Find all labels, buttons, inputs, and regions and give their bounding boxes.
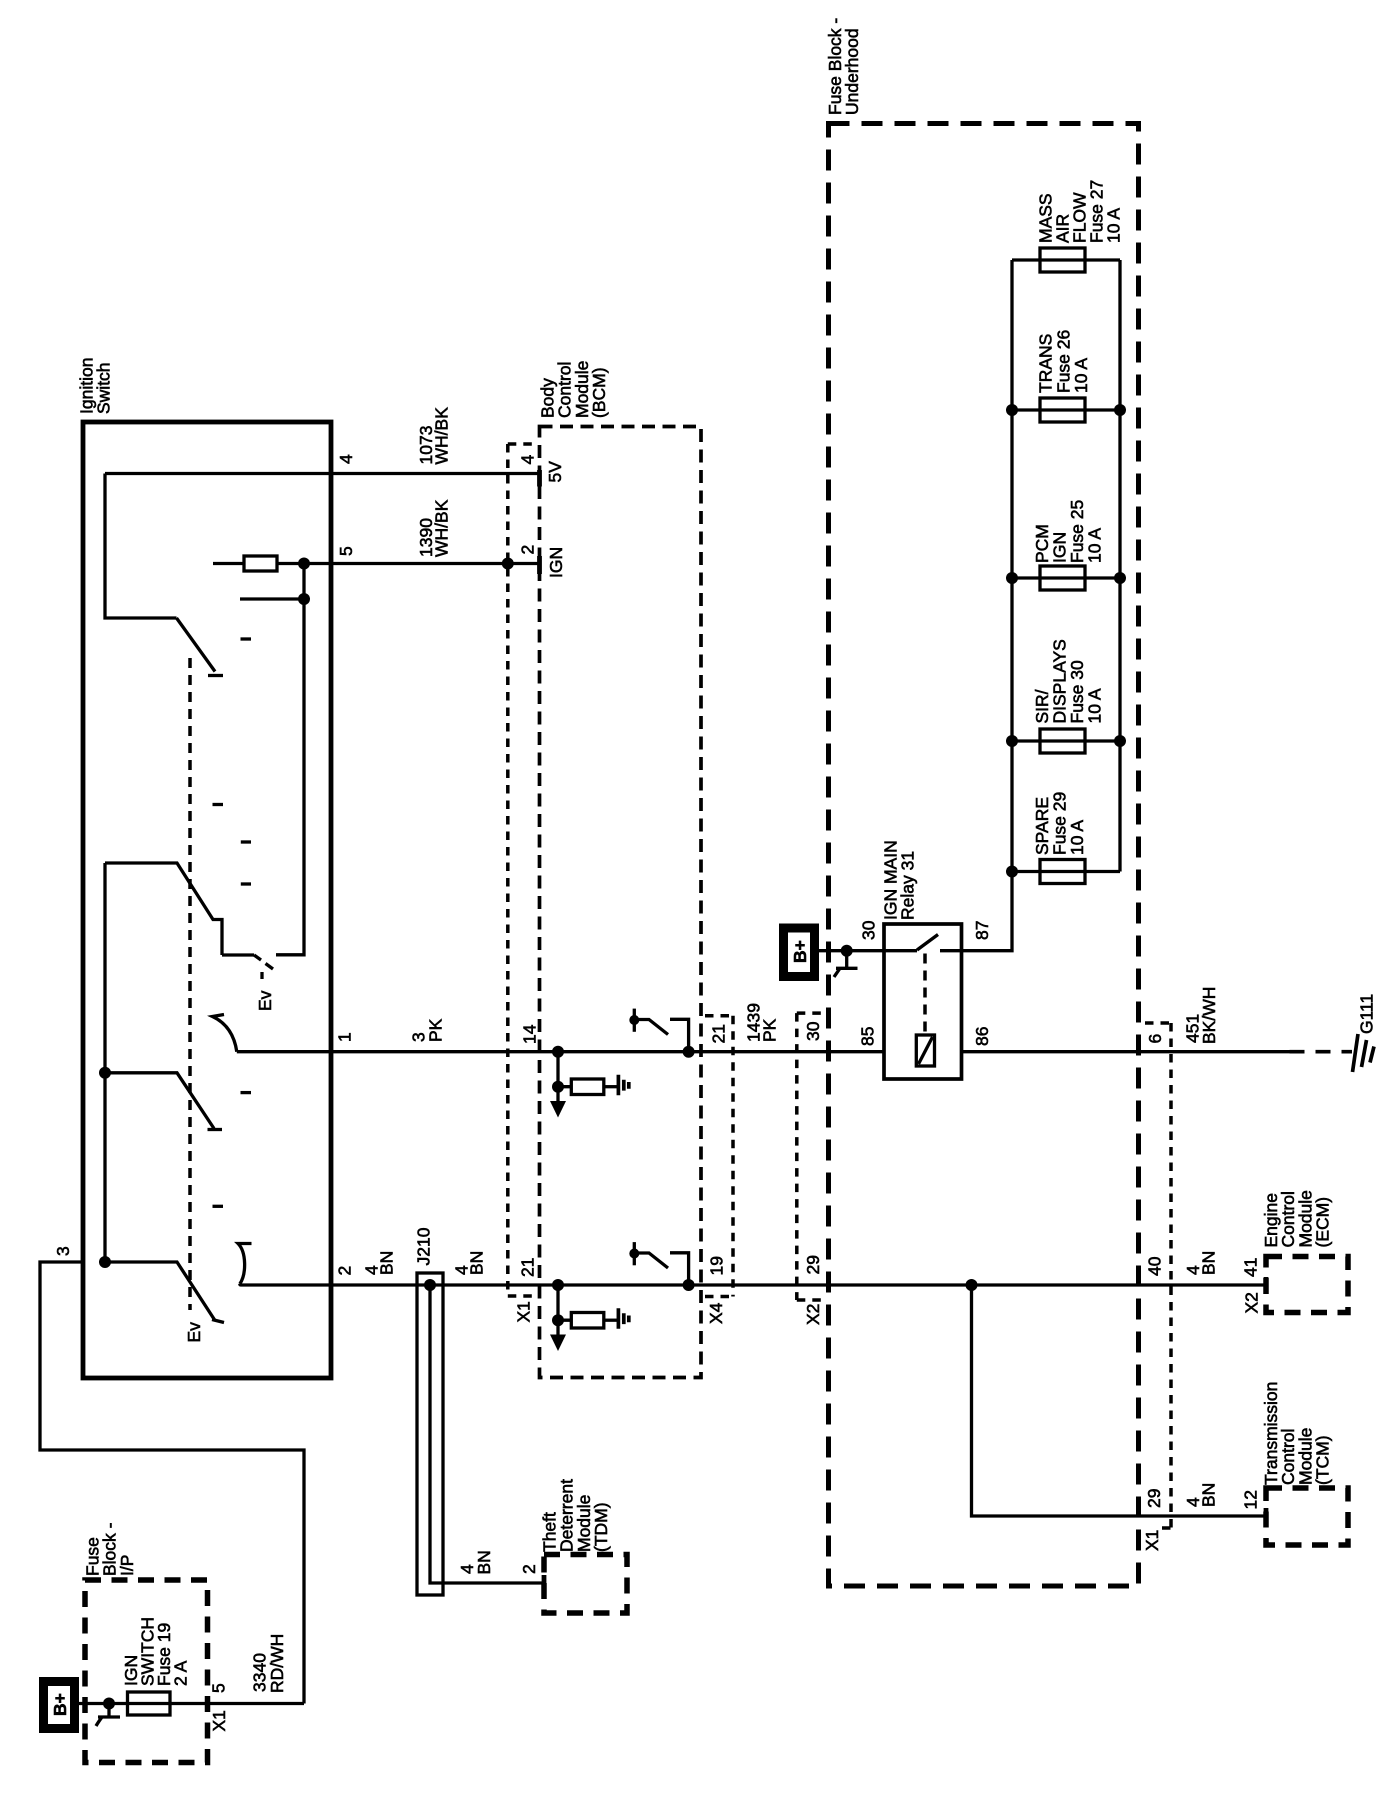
fuse SIR DISPLAYS Fuse 30 (1040, 729, 1085, 753)
ECM box (1266, 1257, 1348, 1313)
B+ IP stub symbol (96, 1704, 120, 1727)
svg-text:X4: X4 (706, 1302, 726, 1324)
fuse rung mass (1012, 258, 1120, 261)
fuse rung sir (1012, 739, 1120, 742)
node PK in BCM (552, 1046, 564, 1058)
svg-text:IGN MAINRelay 31: IGN MAINRelay 31 (881, 840, 918, 920)
svg-text:BN: BN (377, 1251, 397, 1275)
relay IGN MAIN Relay 31 box (884, 924, 962, 1079)
switch arm chain D (105, 1262, 215, 1321)
svg-text:4: 4 (518, 455, 538, 465)
svg-text:BN: BN (1199, 1251, 1219, 1275)
svg-text:G111: G111 (1357, 994, 1377, 1034)
svg-text:IgnitionSwitch: IgnitionSwitch (77, 358, 114, 414)
fuse rail right (1118, 260, 1121, 872)
switch blade D tip (212, 1320, 224, 1323)
svg-text:J210: J210 (414, 1227, 434, 1265)
wire B+ to fuse19 (79, 1702, 170, 1705)
svg-text:29: 29 (803, 1255, 823, 1274)
svg-text:1: 1 (335, 1032, 355, 1042)
node pcm right (1114, 572, 1126, 584)
BCM connector X4 bottom cap (705, 1295, 733, 1299)
svg-text:21: 21 (708, 1024, 728, 1043)
FB UH connector cap top-left (797, 1011, 823, 1015)
relay linkage dashed (923, 954, 927, 1035)
svg-text:87: 87 (972, 921, 992, 940)
switch arm chain B (105, 863, 222, 955)
contact tick T2 (213, 803, 224, 806)
wire resistor to pin 5 (277, 562, 331, 565)
node B+ IP (103, 1698, 115, 1710)
svg-text:12: 12 (1240, 1490, 1260, 1509)
node spare left (1006, 866, 1018, 878)
node BN to TCM (966, 1279, 978, 1291)
svg-text:Ev: Ev (255, 990, 275, 1011)
BCM switch symbol upper (629, 1009, 688, 1052)
wire 1073 WH/BK (5V) (105, 472, 540, 475)
svg-text:BK/WH: BK/WH (1199, 987, 1219, 1044)
svg-text:19: 19 (707, 1256, 727, 1275)
svg-text:4: 4 (336, 454, 356, 464)
contact tick T6 (213, 1205, 224, 1208)
svg-text:Ev: Ev (184, 1322, 204, 1343)
switch arm chain C (105, 1073, 214, 1129)
wire 4 BN (switch to ECM) (240, 1284, 1266, 1285)
terminal tick TCM (1264, 1508, 1269, 1524)
contact tick T3 (241, 840, 251, 843)
B+ stub symbol (834, 951, 858, 977)
svg-text:X1: X1 (1142, 1530, 1162, 1551)
ground G111 symbol (1344, 1034, 1374, 1072)
wire resistor left stub (213, 562, 244, 565)
BCM switch symbol lower (629, 1242, 688, 1285)
wire pin5 branch down (276, 564, 304, 955)
ignition switch box (83, 422, 331, 1378)
svg-text:BN: BN (1199, 1483, 1219, 1507)
FB UH connector cap bottom-right (1162, 1526, 1171, 1530)
svg-text:PK: PK (426, 1018, 446, 1042)
splice J210 box (417, 1273, 443, 1595)
fuse rung trans (1012, 408, 1120, 411)
wire 451 dashed tail (1290, 1050, 1345, 1054)
relay contact 30-87 (884, 935, 962, 951)
arrow down (BCM lower) (550, 1320, 566, 1351)
ground (BCM lower) (618, 1308, 628, 1329)
switch blade A tip (208, 674, 223, 677)
svg-text:RD/WH: RD/WH (267, 1634, 287, 1693)
svg-text:IGN: IGN (546, 547, 566, 578)
wire B+ to relay 30 (819, 949, 884, 952)
fuse PCM IGN Fuse 25 (1040, 566, 1085, 590)
node pin5 junction (298, 558, 310, 570)
svg-text:3: 3 (53, 1246, 73, 1256)
contact tick T1 (241, 637, 252, 640)
svg-text:86: 86 (972, 1027, 992, 1046)
Fuse Block Underhood box (829, 124, 1139, 1587)
terminal tick TDM (542, 1575, 547, 1591)
fuse IGN SWITCH Fuse 19 (128, 1692, 171, 1715)
terminal tick BCM 5V (537, 470, 542, 487)
wire run bus to blade B (222, 953, 254, 956)
svg-text:5: 5 (336, 546, 356, 556)
svg-text:X2: X2 (1242, 1292, 1262, 1313)
svg-text:5V: 5V (545, 461, 565, 483)
contact tick T4 (241, 882, 251, 885)
BCM box (540, 427, 702, 1378)
wire 3 PK segment (237, 1050, 884, 1053)
FB UH connector line (right) (1169, 1023, 1173, 1534)
svg-text:40: 40 (1145, 1256, 1165, 1276)
svg-text:X1: X1 (209, 1710, 229, 1731)
wire J210 drop to TDM (430, 1285, 544, 1583)
svg-text:X1: X1 (513, 1301, 533, 1322)
switch blade C tip (208, 1128, 223, 1131)
Fuse Block IP box (85, 1580, 208, 1763)
ground (BCM upper) (618, 1075, 628, 1096)
svg-text:14: 14 (520, 1024, 540, 1044)
node trans left (1006, 404, 1018, 416)
node y599 (298, 593, 310, 605)
svg-text:2: 2 (519, 1564, 539, 1574)
terminal tick BCM IGN (537, 556, 542, 574)
node PK switch-L (683, 1046, 695, 1058)
terminal tick ECM (1264, 1277, 1269, 1293)
wire contact stub y599 (240, 597, 304, 600)
wire relay 87 to fuse rail (962, 260, 1013, 951)
relay coil (916, 1035, 934, 1066)
svg-text:2: 2 (335, 1266, 355, 1276)
svg-text:5: 5 (209, 1683, 229, 1693)
svg-text:B+: B+ (50, 1693, 70, 1716)
node BN in BCM (552, 1279, 564, 1291)
FB UH connector cap bottom-left (797, 1298, 823, 1302)
wire BN branch to TCM (972, 1285, 1267, 1516)
node B+ feed (841, 945, 853, 957)
svg-text:WH/BK: WH/BK (432, 407, 452, 465)
svg-text:2: 2 (518, 545, 538, 555)
svg-text:EngineControlModule(ECM): EngineControlModule(ECM) (1261, 1190, 1333, 1247)
node J210 (424, 1279, 436, 1291)
switch blade B (run contact, dashed) (254, 955, 273, 979)
FB UH connector line (left) (795, 1013, 799, 1300)
fuse TRANS Fuse 26 (1040, 398, 1085, 422)
BCM sense resistor lower (552, 1285, 618, 1328)
B+ terminal (bottom) (44, 1682, 75, 1729)
svg-text:B+: B+ (790, 940, 810, 963)
svg-text:41: 41 (1240, 1258, 1260, 1277)
svg-text:6: 6 (1145, 1034, 1165, 1044)
svg-text:85: 85 (858, 1027, 878, 1046)
TCM box (1266, 1488, 1348, 1545)
svg-text:29: 29 (1144, 1489, 1164, 1508)
svg-text:30: 30 (859, 920, 879, 940)
wire 1390 WH/BK (IGN) (331, 562, 540, 565)
node common-C (99, 1067, 111, 1079)
svg-text:BN: BN (474, 1550, 494, 1574)
node sir right (1114, 735, 1126, 747)
fuse rung spare (1012, 870, 1120, 873)
contact tick T5 (241, 1091, 252, 1094)
node BN switch-L (683, 1279, 695, 1291)
BCM connector X1 top cap (508, 442, 534, 446)
svg-text:PK: PK (760, 1018, 780, 1042)
B+ terminal (top) (784, 928, 815, 977)
BCM connector X4 line (731, 1016, 735, 1297)
svg-text:30: 30 (803, 1021, 823, 1041)
switch pole frame (pins 4/5 section) (105, 474, 177, 619)
svg-text:BN: BN (467, 1251, 487, 1275)
BCM connector X4 top cap (705, 1014, 733, 1018)
switch common bus (left vertical) (103, 863, 106, 1262)
BCM connector X1 bottom cap (508, 1294, 534, 1298)
pin 2 arc contact (238, 1244, 252, 1285)
fuse MASS AIR FLOW Fuse 27 (1040, 248, 1085, 272)
switch blade A (off-run) (177, 618, 216, 672)
node IGN at X1 (502, 558, 514, 570)
fuse SPARE Fuse 29 (1040, 860, 1085, 884)
FB UH connector cap top-right (1145, 1021, 1171, 1025)
node common-D (99, 1256, 111, 1268)
node trans right (1114, 404, 1126, 416)
wire 3340 RD/WH (pin3 to fuse) (40, 1262, 304, 1704)
arrow down (BCM upper) (550, 1087, 566, 1118)
wire fuse19 to corner (170, 1702, 304, 1705)
switch linkage dashed (188, 658, 192, 1310)
wire 451 BK/WH solid (962, 1050, 1290, 1053)
svg-text:WH/BK: WH/BK (432, 499, 452, 557)
svg-text:21: 21 (518, 1258, 538, 1277)
svg-text:X2: X2 (803, 1304, 823, 1325)
BCM connector X1 line (506, 444, 510, 1296)
TDM box (544, 1555, 627, 1614)
resistor (key-in warning) R1 (244, 556, 277, 571)
node pcm left (1006, 572, 1018, 584)
pin 1 arc contact (213, 1015, 237, 1052)
node sir left (1006, 735, 1018, 747)
BCM sense resistor upper (552, 1052, 618, 1095)
svg-text:Fuse Block -Underhood: Fuse Block -Underhood (825, 18, 862, 115)
fuse rung pcm (1012, 576, 1120, 579)
